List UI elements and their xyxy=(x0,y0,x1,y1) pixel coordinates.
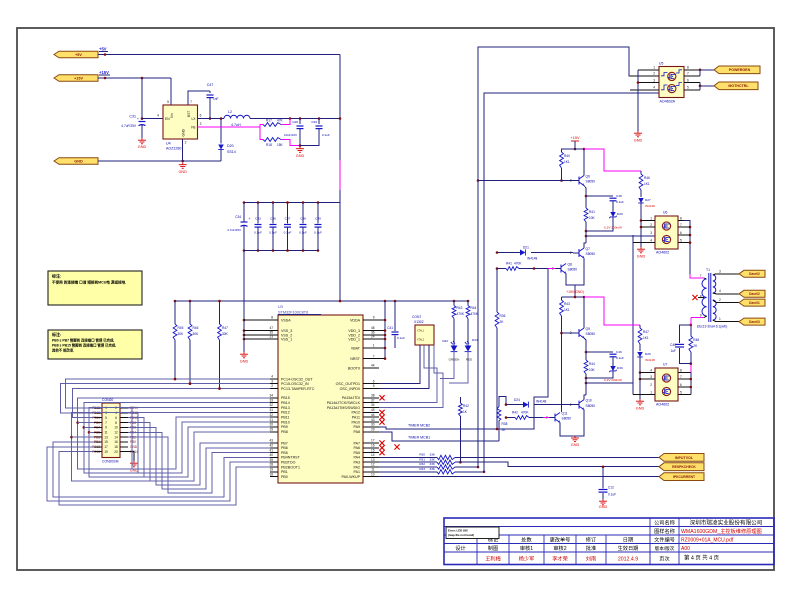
wire U7 outputs to T1 pin9 node xyxy=(684,372,691,374)
wire EN pin lead xyxy=(142,118,163,120)
capacitor C29 0.1uF xyxy=(318,119,320,125)
svg-text:文件编号: 文件编号 xyxy=(654,535,675,543)
wire TIMER MCB2 xyxy=(379,269,548,430)
MCU pin 3 PC15-OSC32_IN xyxy=(270,383,278,385)
svg-text:47: 47 xyxy=(269,326,273,330)
svg-text:PB3: PB3 xyxy=(94,435,100,439)
svg-text:R41: R41 xyxy=(506,262,512,266)
svg-text:5: 5 xyxy=(687,86,689,90)
connector Davr01 xyxy=(739,299,765,306)
svg-text:6: 6 xyxy=(200,114,202,118)
svg-text:PA10: PA10 xyxy=(351,420,360,424)
svg-text:19: 19 xyxy=(269,468,273,472)
svg-text:6.2V 200mW: 6.2V 200mW xyxy=(604,226,622,230)
svg-text:17: 17 xyxy=(371,439,375,443)
svg-text:1uF: 1uF xyxy=(671,349,677,353)
MCU pin 38 PA15#JTDI xyxy=(363,397,379,399)
svg-text:AO4602: AO4602 xyxy=(656,403,669,407)
svg-text:7: 7 xyxy=(190,100,192,104)
capacitor C34 4.7uF/25V xyxy=(243,203,245,223)
svg-text:XTAL1: XTAL1 xyxy=(417,330,425,333)
svg-text:1: 1 xyxy=(650,217,652,221)
wire PB9 net to CON20 pin6 xyxy=(128,418,270,477)
inductor L2 4.7uH xyxy=(224,115,250,118)
wire D24 to Q10 base xyxy=(506,404,523,406)
svg-text:U4: U4 xyxy=(166,142,171,146)
wire to IPKCURRENT xyxy=(379,476,659,478)
wire PB3 net wrap to CON20 pin17 xyxy=(47,447,270,501)
svg-text:U7: U7 xyxy=(663,363,667,367)
connector IPKCURRENT xyxy=(659,473,704,481)
svg-text:43: 43 xyxy=(269,439,273,443)
wire U7 input pins xyxy=(640,372,655,374)
svg-text:PA8: PA8 xyxy=(353,430,360,434)
wire magenta to T1 pin9 xyxy=(690,324,693,327)
svg-text:4: 4 xyxy=(115,411,117,415)
svg-text:杨少军: 杨少军 xyxy=(519,554,535,562)
T1 unused pin8 X xyxy=(698,297,704,299)
svg-text:IN4148: IN4148 xyxy=(645,358,655,362)
connector INPUTVOL xyxy=(659,454,704,462)
wire U5 pins 1-3 to ground xyxy=(637,70,639,131)
svg-text:(map file not found): (map file not found) xyxy=(448,533,474,537)
mosfet glyph U6b xyxy=(662,235,670,243)
transistor Q10 S8050 xyxy=(578,401,580,409)
wire PC14 net to CON20 pin1 xyxy=(66,379,270,408)
svg-text:第 4 页 共 4 页: 第 4 页 共 4 页 xyxy=(684,554,720,562)
svg-text:34: 34 xyxy=(371,403,375,407)
resistor R41 10K xyxy=(584,208,588,222)
wire U5 pin2 riser from PA2 xyxy=(478,47,659,467)
resistor R17 47K xyxy=(263,123,281,127)
MCU pin 16 PA6 xyxy=(363,447,379,449)
svg-text:PA9: PA9 xyxy=(353,425,360,429)
svg-text:U3: U3 xyxy=(278,305,283,309)
ground under C28 C29 xyxy=(296,147,304,153)
wire U6 outputs to transformer xyxy=(684,221,690,275)
U5 pin 8 xyxy=(684,69,700,71)
IC U7 AO4602 xyxy=(655,368,678,401)
wire Q10 collector xyxy=(584,395,586,400)
MCU pin 34 PB15 xyxy=(270,397,278,399)
svg-text:R31: R31 xyxy=(419,457,425,461)
svg-text:BOOT0: BOOT0 xyxy=(348,366,360,370)
wire ground rail xyxy=(98,160,221,162)
svg-text:33K: 33K xyxy=(429,467,435,471)
svg-text:PB9: PB9 xyxy=(281,425,288,429)
svg-text:44: 44 xyxy=(371,413,375,417)
CON20 pin 12 xyxy=(120,431,128,433)
svg-text:S8050: S8050 xyxy=(568,268,578,272)
wire SWCLK to CON7 xyxy=(379,345,443,408)
capacitor C33 0.1uF xyxy=(257,203,259,224)
svg-text:CON20SM: CON20SM xyxy=(102,459,119,463)
svg-text:IPKCURRENT: IPKCURRENT xyxy=(673,475,696,479)
svg-text:R40: R40 xyxy=(564,154,570,158)
svg-text:32: 32 xyxy=(269,403,273,407)
svg-text:修订: 修订 xyxy=(586,535,596,543)
resistor R36 2K rail xyxy=(496,269,498,313)
svg-text:王利梅: 王利梅 xyxy=(485,554,501,562)
svg-text:C12: C12 xyxy=(608,486,614,490)
regulator U4 AOZ1280 xyxy=(163,105,198,139)
U5 pin 4 xyxy=(630,89,659,91)
IC U6 AO4602 xyxy=(655,216,678,249)
svg-text:C31: C31 xyxy=(129,115,136,119)
svg-text:TIMER MCB1: TIMER MCB1 xyxy=(408,435,430,439)
MCU pin 6 OSC_OUTPD1 xyxy=(363,383,379,385)
svg-text:A00: A00 xyxy=(681,546,690,552)
svg-text:37: 37 xyxy=(371,398,375,402)
svg-text:PB7: PB7 xyxy=(281,441,288,445)
wire PB15 net to CON20 pin7 xyxy=(78,398,270,469)
svg-text:34: 34 xyxy=(269,394,273,398)
MCU pin 24 VDD_1 xyxy=(363,338,379,340)
svg-text:C46: C46 xyxy=(616,350,622,354)
resistor R47 1K1 lower xyxy=(639,325,641,328)
svg-text:Q10: Q10 xyxy=(586,398,592,402)
svg-text:PB5: PB5 xyxy=(94,431,100,435)
svg-text:PA3: PA3 xyxy=(353,461,360,465)
MCU pin 32 PB13 xyxy=(270,407,278,409)
MCU pin 21 PB10 xyxy=(270,421,278,423)
svg-text:470K: 470K xyxy=(457,312,465,316)
CON20 pin 11 xyxy=(94,431,102,433)
svg-text:R43: R43 xyxy=(457,306,463,310)
svg-text:AO4602: AO4602 xyxy=(656,251,669,255)
ground under VSS rail xyxy=(240,352,248,358)
svg-text:IN4148: IN4148 xyxy=(536,400,547,404)
wire Q10 emitter xyxy=(583,410,585,421)
svg-text:14: 14 xyxy=(114,435,118,439)
wire +15V to regulator xyxy=(98,77,171,79)
svg-text:PB5: PB5 xyxy=(281,451,288,455)
svg-text:VDD_1: VDD_1 xyxy=(348,337,360,341)
svg-text:R33: R33 xyxy=(419,467,425,471)
svg-text:PB7: PB7 xyxy=(94,426,100,430)
svg-text:+5V: +5V xyxy=(75,53,82,57)
svg-text:R44: R44 xyxy=(471,306,477,310)
wire U5 outputs 8-7 join xyxy=(699,70,701,76)
svg-text:日期: 日期 xyxy=(623,536,633,543)
capacitor C40 1uF xyxy=(680,325,691,343)
svg-text:NRST: NRST xyxy=(350,357,361,361)
svg-text:40: 40 xyxy=(269,453,273,457)
svg-text:C33: C33 xyxy=(255,217,261,221)
mosfet glyph U5b xyxy=(668,85,676,93)
MCU pin 42 PB6 xyxy=(270,447,278,449)
svg-text:D26: D26 xyxy=(645,352,651,356)
ground under U5 inputs xyxy=(634,131,642,137)
connector Davr02 b xyxy=(739,290,765,297)
svg-text:33K: 33K xyxy=(429,453,435,457)
wire OSC_OUT to crystal xyxy=(379,345,420,384)
wire regulator output rail xyxy=(250,118,340,120)
wire mid drain rail U6 to U7 xyxy=(632,235,634,395)
wire D21 to Q7 base xyxy=(497,252,520,254)
wire lower rail xyxy=(562,296,587,298)
svg-text:BST: BST xyxy=(187,111,191,117)
svg-text:U6: U6 xyxy=(663,211,667,215)
svg-text:+: + xyxy=(137,117,139,121)
svg-text:D20: D20 xyxy=(227,144,234,148)
svg-text:8: 8 xyxy=(680,217,682,221)
wire to RESPKCHECK xyxy=(455,462,659,467)
svg-text:+15V: +15V xyxy=(571,136,580,140)
svg-text:PA12: PA12 xyxy=(351,411,360,415)
MCU pin 44 BOOT0 xyxy=(363,367,379,369)
resistor R42b 470K xyxy=(506,417,515,419)
wire driver output to U7 gates xyxy=(586,382,633,384)
mosfet glyph U7a xyxy=(662,374,670,382)
ground symbol under U4 xyxy=(179,163,187,169)
svg-text:GREEN: GREEN xyxy=(449,358,460,362)
svg-text:3: 3 xyxy=(200,122,202,126)
connector POWERGEN xyxy=(700,69,714,71)
svg-text:D21: D21 xyxy=(523,246,529,250)
svg-text:12: 12 xyxy=(371,463,375,467)
svg-text:PA7: PA7 xyxy=(353,441,360,445)
svg-text:5: 5 xyxy=(105,416,107,420)
svg-text:PB14: PB14 xyxy=(281,401,290,405)
wire PB6 net to CON20 pin12 xyxy=(128,432,270,489)
MCU pin 29 PA8 xyxy=(363,431,379,433)
svg-text:11: 11 xyxy=(104,431,108,435)
svg-text:470K: 470K xyxy=(514,262,522,266)
svg-text:+15V(GND): +15V(GND) xyxy=(566,290,584,294)
svg-text:2: 2 xyxy=(185,141,187,145)
svg-text:5: 5 xyxy=(167,100,169,104)
MCU pin 33 PB14 xyxy=(270,402,278,404)
svg-text:15: 15 xyxy=(104,440,108,444)
svg-text:0.1uF: 0.1uF xyxy=(299,231,307,235)
wire +15V branch down to C31 / EN xyxy=(141,78,143,120)
svg-text:PC14-OSC32_OUT: PC14-OSC32_OUT xyxy=(281,377,313,381)
svg-text:20: 20 xyxy=(269,423,273,427)
crystal module CON7 X1302 xyxy=(415,325,434,345)
svg-text:3: 3 xyxy=(719,269,721,273)
wire PB7 net to CON20 pin10 xyxy=(128,427,270,485)
svg-text:16: 16 xyxy=(371,444,375,448)
svg-text:0.1uF: 0.1uF xyxy=(269,231,277,235)
ground under CON20 xyxy=(128,452,134,461)
svg-text:L2: L2 xyxy=(228,110,232,114)
MCU pin 23 VSS_1 xyxy=(244,338,278,340)
wire PB12 net to CON20 pin13 xyxy=(72,412,271,481)
svg-text:21: 21 xyxy=(269,418,273,422)
svg-text:C37: C37 xyxy=(285,217,291,221)
svg-text:PB0: PB0 xyxy=(130,440,136,444)
svg-text:STM32F100C8T6: STM32F100C8T6 xyxy=(278,311,308,315)
CON20 pin 1 xyxy=(94,407,102,409)
svg-text:XTAL2: XTAL2 xyxy=(417,339,425,342)
svg-text:C29: C29 xyxy=(311,120,317,124)
svg-text:OSC_INPD0: OSC_INPD0 xyxy=(340,387,360,391)
svg-text:Davr03: Davr03 xyxy=(749,320,760,324)
svg-text:6: 6 xyxy=(680,231,682,235)
wire SWDIO to CON7 xyxy=(379,345,437,403)
svg-text:VSSA: VSSA xyxy=(281,318,291,322)
svg-text:PB1: PB1 xyxy=(94,440,100,444)
svg-text:2012.4.9: 2012.4.9 xyxy=(618,556,638,562)
svg-text:R43: R43 xyxy=(564,302,570,306)
svg-text:0.1uF: 0.1uF xyxy=(616,200,624,204)
svg-text:16: 16 xyxy=(114,440,118,444)
svg-text:李才荣: 李才荣 xyxy=(552,554,568,562)
wire Q6 collector to +15V xyxy=(575,149,584,176)
title block table xyxy=(444,518,774,565)
svg-text:2: 2 xyxy=(650,223,652,227)
svg-text:R17: R17 xyxy=(266,119,272,123)
svg-text:R32: R32 xyxy=(419,462,425,466)
svg-text:R46: R46 xyxy=(193,326,199,330)
MCU pin 37 PA14#JTCK/SWCLK xyxy=(363,402,379,404)
wire T1 pin4 out xyxy=(716,293,739,295)
svg-text:R18: R18 xyxy=(266,143,272,147)
svg-text:D23: D23 xyxy=(472,338,478,342)
LED D23 RED xyxy=(467,344,469,346)
svg-text:制图: 制图 xyxy=(488,544,498,552)
svg-text:标注:: 标注: xyxy=(51,331,61,337)
U5 pin 1 xyxy=(638,69,659,71)
MCU pin 9 VDDA xyxy=(363,319,379,321)
svg-text:31: 31 xyxy=(269,408,273,412)
svg-text:IN4148: IN4148 xyxy=(645,204,655,208)
svg-text:生效日期: 生效日期 xyxy=(618,544,639,552)
svg-text:C41: C41 xyxy=(387,326,393,330)
svg-text:R46: R46 xyxy=(644,176,650,180)
svg-text:X1302: X1302 xyxy=(414,320,424,324)
svg-text:48: 48 xyxy=(371,326,375,330)
capacitor C47 xyxy=(209,91,211,93)
svg-text:PA1: PA1 xyxy=(353,470,360,474)
svg-text:页次: 页次 xyxy=(659,554,669,562)
svg-text:Q9: Q9 xyxy=(586,327,591,331)
svg-text:Davr02: Davr02 xyxy=(749,292,760,296)
MCU pin 39 PB3TDO xyxy=(270,461,278,463)
wire magenta +15V to right 1K1 xyxy=(584,149,641,171)
svg-text:D24: D24 xyxy=(514,398,520,402)
CON20 pin 7 xyxy=(94,422,102,424)
wire decoupling bank top rail xyxy=(244,202,340,204)
svg-text:R41: R41 xyxy=(589,210,595,214)
svg-text:+15V: +15V xyxy=(74,76,83,80)
svg-text:审核2: 审核2 xyxy=(553,544,566,552)
mosfet glyph U7b xyxy=(662,387,670,395)
svg-text:PB0 s PB7 管脚到 连接端口 管理 已完成,: PB0 s PB7 管脚到 连接端口 管理 已完成, xyxy=(52,338,114,343)
svg-text:1: 1 xyxy=(719,317,721,321)
svg-text:7: 7 xyxy=(373,354,375,358)
svg-text:18: 18 xyxy=(114,445,118,449)
svg-text:+: + xyxy=(249,217,251,221)
svg-text:45: 45 xyxy=(371,408,375,412)
zener D30 6.2V xyxy=(610,366,616,371)
svg-text:10: 10 xyxy=(371,472,375,476)
MCU pin 19 PB1 xyxy=(270,471,278,473)
svg-text:4: 4 xyxy=(650,369,652,373)
MCU pin 8 VSSA xyxy=(244,319,278,321)
svg-text:3: 3 xyxy=(105,411,107,415)
svg-text:PB2BOOT1: PB2BOOT1 xyxy=(281,465,300,469)
wire T1 pin3 out xyxy=(716,273,739,275)
wire magenta into T1 pin7 xyxy=(690,274,704,278)
svg-text:D22: D22 xyxy=(442,339,448,343)
U7 pin 7 xyxy=(678,378,684,380)
svg-text:GND: GND xyxy=(178,170,187,174)
resistor R46 30K pull-up xyxy=(189,301,191,324)
wire to INPUTVOL xyxy=(455,456,659,458)
svg-text:8: 8 xyxy=(271,316,273,320)
svg-text:D27: D27 xyxy=(645,198,651,202)
svg-text:13: 13 xyxy=(371,458,375,462)
svg-text:AOZ1280: AOZ1280 xyxy=(166,147,181,151)
MCU pin 7 NRST xyxy=(363,358,379,360)
MCU pin 22 PB11 xyxy=(270,416,278,418)
U7 pin 8 xyxy=(678,372,684,374)
svg-text:6: 6 xyxy=(687,78,689,82)
svg-text:2: 2 xyxy=(653,72,655,76)
svg-text:7: 7 xyxy=(105,421,107,425)
note box 1 xyxy=(48,271,142,305)
wire magenta to Q11 base xyxy=(548,417,550,419)
svg-text:8: 8 xyxy=(680,369,682,373)
U6 pin 6 xyxy=(678,234,684,236)
svg-text:5: 5 xyxy=(373,384,375,388)
connector RESPKCHECK xyxy=(659,463,704,471)
svg-text:C38: C38 xyxy=(300,217,306,221)
wire U6 input pins xyxy=(641,220,655,222)
svg-text:PB6: PB6 xyxy=(281,446,288,450)
svg-text:VDDA: VDDA xyxy=(350,318,361,322)
svg-text:2K: 2K xyxy=(500,320,505,324)
svg-text:GND: GND xyxy=(74,159,83,163)
diode D20 SS14 xyxy=(220,119,222,144)
svg-text:GND: GND xyxy=(634,139,643,143)
connector Davr03 xyxy=(739,318,765,325)
wire Q7 emitter to output xyxy=(583,258,585,269)
capacitor C48 0.1uF xyxy=(586,195,613,197)
MCU pin 12 PA2 xyxy=(363,466,379,468)
diode D26 IN4148 xyxy=(637,352,643,357)
svg-text:10: 10 xyxy=(114,426,118,430)
wire PB11 net to CON20 pin2 xyxy=(128,408,270,469)
svg-text:T1: T1 xyxy=(706,268,710,272)
resistor R33 33K xyxy=(379,471,437,473)
svg-text:C36: C36 xyxy=(270,217,276,221)
resistor R44b 10K xyxy=(584,360,588,374)
U5 pin 3 xyxy=(638,82,659,84)
svg-text:PB3TDO: PB3TDO xyxy=(281,461,296,465)
svg-text:R30: R30 xyxy=(419,453,425,457)
svg-text:PA0-WKUP: PA0-WKUP xyxy=(341,475,360,479)
svg-text:CON20: CON20 xyxy=(102,398,113,402)
svg-text:PA13#JTMS/SWDIO: PA13#JTMS/SWDIO xyxy=(327,406,360,410)
svg-text:C34: C34 xyxy=(235,215,241,219)
wire driver output to U6 gates xyxy=(586,235,655,237)
MCU pin 44 PA11 xyxy=(363,416,379,418)
svg-text:30K: 30K xyxy=(193,332,200,336)
svg-text:42: 42 xyxy=(269,444,273,448)
wire Q9 collector xyxy=(583,297,585,328)
svg-text:4: 4 xyxy=(271,375,273,379)
svg-text:RZ0009+01A_MCU.pdf: RZ0009+01A_MCU.pdf xyxy=(681,537,734,543)
ground under D26 xyxy=(636,399,644,405)
svg-text:PA6: PA6 xyxy=(353,446,360,450)
svg-text:PA5: PA5 xyxy=(353,451,360,455)
connector CON20 xyxy=(102,403,120,458)
wire +5V vertical feed down to decoupling bank xyxy=(339,55,341,119)
svg-text:R42: R42 xyxy=(463,404,469,408)
